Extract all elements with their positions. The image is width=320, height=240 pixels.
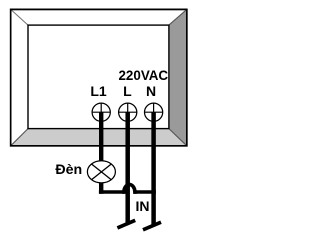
svg-text:L1: L1 <box>90 83 107 99</box>
svg-text:N: N <box>146 83 156 99</box>
svg-text:IN: IN <box>136 198 150 214</box>
svg-text:220VAC: 220VAC <box>118 68 168 83</box>
svg-text:Đèn: Đèn <box>55 162 82 178</box>
svg-text:L: L <box>123 83 132 99</box>
